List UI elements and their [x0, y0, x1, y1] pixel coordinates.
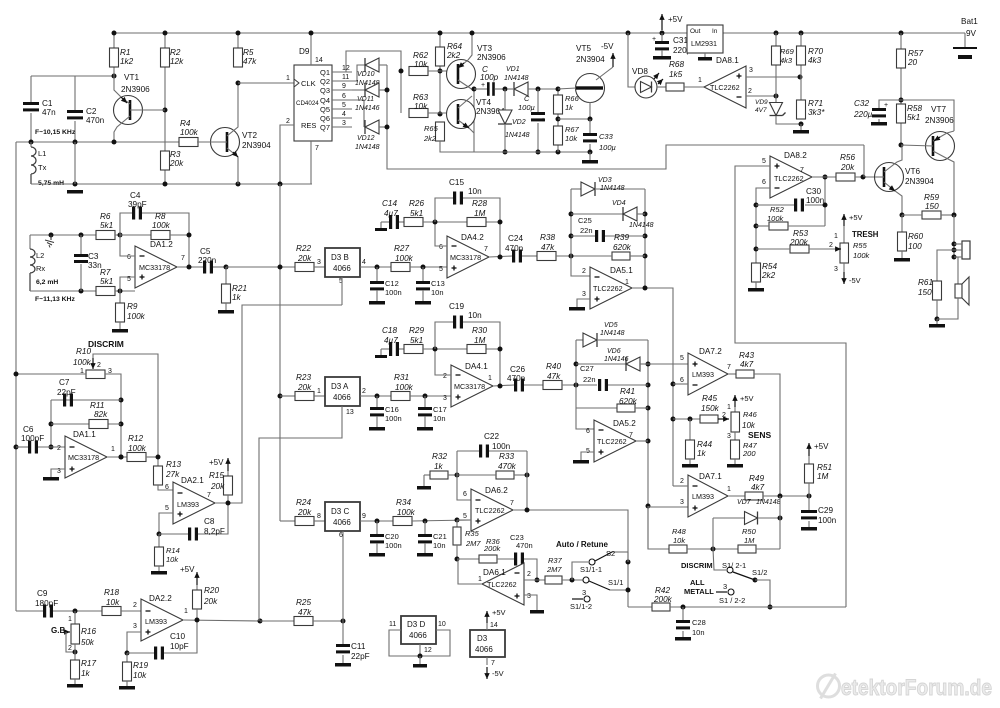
svg-text:DA6.2: DA6.2	[485, 486, 508, 495]
svg-text:R27: R27	[394, 244, 409, 253]
svg-text:C8: C8	[204, 517, 215, 526]
svg-text:4066: 4066	[333, 264, 351, 273]
svg-text:C33: C33	[599, 132, 614, 141]
svg-text:C2: C2	[86, 107, 97, 116]
svg-text:1M: 1M	[817, 472, 829, 481]
svg-text:3: 3	[133, 623, 137, 630]
svg-text:R34: R34	[396, 498, 411, 507]
svg-text:C9: C9	[37, 589, 48, 598]
svg-text:+5V: +5V	[740, 394, 754, 403]
svg-text:+5V: +5V	[814, 442, 829, 451]
svg-text:VD2: VD2	[512, 119, 526, 126]
svg-text:4: 4	[342, 111, 346, 118]
svg-text:DA1.2: DA1.2	[150, 240, 173, 249]
svg-text:VT4: VT4	[476, 98, 491, 107]
svg-text:1N4148: 1N4148	[756, 499, 781, 506]
svg-text:Q1: Q1	[320, 68, 330, 77]
svg-text:100k: 100k	[73, 358, 92, 367]
svg-text:4µ7: 4µ7	[384, 209, 398, 218]
svg-text:20k: 20k	[840, 163, 855, 172]
svg-text:DA2.1: DA2.1	[181, 476, 204, 485]
svg-text:R16: R16	[81, 627, 96, 636]
svg-text:+5V: +5V	[492, 608, 506, 617]
svg-text:LM393: LM393	[145, 617, 167, 626]
svg-text:VT5: VT5	[576, 44, 591, 53]
svg-text:Q4: Q4	[320, 96, 330, 105]
svg-text:Rx: Rx	[36, 264, 45, 273]
svg-text:5: 5	[463, 513, 467, 520]
svg-text:1: 1	[286, 75, 290, 82]
svg-text:R32: R32	[432, 452, 447, 461]
svg-text:5k1: 5k1	[410, 209, 423, 218]
svg-text:R37: R37	[548, 556, 563, 565]
svg-text:6: 6	[586, 428, 590, 435]
svg-text:C27: C27	[580, 364, 594, 373]
svg-text:3: 3	[834, 266, 838, 273]
svg-text:DA7.1: DA7.1	[699, 472, 722, 481]
svg-text:DA1.1: DA1.1	[73, 430, 96, 439]
svg-text:22n: 22n	[580, 226, 593, 235]
svg-text:10n: 10n	[433, 414, 446, 423]
svg-text:82k: 82k	[94, 410, 108, 419]
svg-text:R9: R9	[127, 302, 138, 311]
svg-text:C29: C29	[818, 506, 833, 515]
svg-text:9: 9	[342, 83, 346, 90]
svg-text:1N4146: 1N4146	[355, 105, 380, 112]
svg-text:D3: D3	[477, 634, 488, 643]
svg-text:100µ: 100µ	[518, 103, 535, 112]
svg-text:2: 2	[527, 571, 531, 578]
svg-text:C12: C12	[385, 279, 399, 288]
svg-text:10n: 10n	[692, 628, 705, 637]
svg-text:620k: 620k	[613, 243, 632, 252]
svg-text:200k: 200k	[653, 595, 673, 604]
svg-text:C32: C32	[854, 99, 869, 108]
svg-text:20k: 20k	[297, 383, 312, 392]
svg-text:VT2: VT2	[242, 131, 257, 140]
svg-text:R29: R29	[409, 326, 424, 335]
svg-text:50k: 50k	[81, 638, 95, 647]
svg-text:R57: R57	[908, 49, 923, 58]
svg-text:620k: 620k	[619, 397, 638, 406]
svg-text:1: 1	[727, 486, 731, 493]
svg-text:TRESH: TRESH	[852, 230, 879, 239]
svg-text:C30: C30	[806, 187, 821, 196]
svg-text:1: 1	[488, 375, 492, 382]
svg-text:Out: Out	[690, 28, 701, 35]
svg-text:1: 1	[68, 616, 72, 623]
svg-text:150: 150	[925, 202, 939, 211]
svg-text:6: 6	[127, 254, 131, 261]
svg-text:R42: R42	[655, 586, 670, 595]
svg-text:39pF: 39pF	[128, 200, 147, 209]
svg-text:DA6.1: DA6.1	[483, 568, 506, 577]
svg-text:100µ: 100µ	[599, 143, 616, 152]
svg-text:100k: 100k	[395, 254, 414, 263]
svg-text:METALL: METALL	[684, 587, 714, 596]
svg-text:3: 3	[342, 120, 346, 127]
svg-text:D3 B: D3 B	[331, 253, 349, 262]
svg-text:47k: 47k	[298, 608, 312, 617]
svg-text:7: 7	[181, 255, 185, 262]
svg-text:20k: 20k	[297, 254, 312, 263]
svg-text:R2: R2	[170, 48, 181, 57]
svg-text:3: 3	[723, 582, 727, 591]
svg-text:100k: 100k	[853, 251, 871, 260]
svg-text:C16: C16	[385, 405, 399, 414]
svg-text:6,2 mH: 6,2 mH	[36, 279, 58, 286]
svg-text:C15: C15	[449, 178, 464, 187]
svg-text:6: 6	[463, 491, 467, 498]
svg-text:220n: 220n	[198, 256, 217, 265]
svg-text:1N4148: 1N4148	[505, 132, 530, 139]
svg-text:R20: R20	[204, 586, 219, 595]
svg-text:VD10: VD10	[357, 71, 375, 78]
svg-text:VD4: VD4	[612, 200, 626, 207]
svg-text:-5V: -5V	[849, 276, 861, 285]
svg-text:DA8.2: DA8.2	[784, 151, 807, 160]
svg-text:S1/1-1: S1/1-1	[580, 565, 602, 574]
svg-text:11: 11	[342, 74, 349, 81]
svg-text:DA4.2: DA4.2	[461, 233, 484, 242]
svg-text:20k: 20k	[297, 508, 312, 517]
svg-text:6: 6	[762, 179, 766, 186]
svg-text:R48: R48	[672, 527, 687, 536]
svg-text:R68: R68	[669, 60, 684, 69]
svg-text:R21: R21	[232, 284, 247, 293]
svg-text:R23: R23	[296, 373, 311, 382]
svg-text:100n: 100n	[818, 516, 837, 525]
svg-text:1k: 1k	[434, 462, 444, 471]
svg-text:470n: 470n	[86, 116, 105, 125]
svg-text:10n: 10n	[431, 288, 444, 297]
svg-text:R65: R65	[424, 124, 439, 133]
svg-text:VD8: VD8	[632, 67, 648, 76]
svg-text:VD3: VD3	[598, 177, 612, 184]
svg-text:R24: R24	[296, 498, 311, 507]
svg-text:200k: 200k	[483, 544, 502, 553]
svg-text:R46: R46	[743, 410, 758, 419]
svg-text:S1/1: S1/1	[608, 578, 623, 587]
svg-text:C26: C26	[510, 365, 525, 374]
svg-text:22n: 22n	[583, 375, 596, 384]
svg-text:CD4024: CD4024	[296, 100, 319, 107]
svg-text:D9: D9	[299, 47, 310, 56]
svg-text:C28: C28	[692, 618, 706, 627]
svg-text:C3: C3	[88, 252, 99, 261]
svg-text:2: 2	[68, 645, 72, 652]
svg-text:1k: 1k	[697, 449, 707, 458]
svg-text:100k: 100k	[395, 383, 414, 392]
svg-text:Tx: Tx	[38, 163, 47, 172]
svg-text:22pF: 22pF	[57, 388, 76, 397]
svg-text:1: 1	[698, 77, 702, 84]
svg-text:VD7: VD7	[737, 499, 752, 506]
svg-text:C19: C19	[449, 302, 464, 311]
svg-text:ALL: ALL	[690, 578, 705, 587]
svg-text:470k: 470k	[498, 462, 517, 471]
svg-text:10k: 10k	[414, 60, 428, 69]
svg-text:C13: C13	[431, 279, 445, 288]
svg-text:+: +	[884, 102, 888, 109]
svg-text:100k: 100k	[767, 214, 785, 223]
svg-text:47k: 47k	[541, 243, 555, 252]
svg-text:D3 D: D3 D	[407, 620, 425, 629]
svg-text:4k3: 4k3	[780, 56, 793, 65]
svg-text:20k: 20k	[169, 159, 184, 168]
svg-text:DA5.1: DA5.1	[610, 266, 633, 275]
svg-text:In: In	[712, 28, 718, 35]
svg-text:22pF: 22pF	[351, 652, 370, 661]
svg-text:R38: R38	[540, 233, 555, 242]
svg-text:C10: C10	[170, 632, 185, 641]
svg-text:R17: R17	[81, 659, 96, 668]
svg-text:R45: R45	[702, 394, 717, 403]
svg-text:1: 1	[111, 446, 115, 453]
svg-text:+5V: +5V	[180, 565, 195, 574]
svg-text:R12: R12	[128, 434, 143, 443]
svg-text:C6: C6	[23, 425, 34, 434]
svg-text:R55: R55	[853, 241, 868, 250]
svg-text:6: 6	[342, 93, 346, 100]
svg-text:1N4148: 1N4148	[355, 144, 380, 151]
svg-text:470n: 470n	[516, 541, 533, 550]
svg-text:12k: 12k	[170, 57, 184, 66]
svg-text:R54: R54	[762, 262, 777, 271]
svg-text:C5: C5	[200, 247, 211, 256]
svg-text:TLC2262: TLC2262	[774, 174, 804, 183]
svg-text:200k: 200k	[789, 238, 809, 247]
svg-text:100pF: 100pF	[21, 434, 44, 443]
svg-text:R13: R13	[166, 460, 181, 469]
svg-text:R14: R14	[166, 546, 180, 555]
svg-text:7: 7	[484, 246, 488, 253]
svg-text:220µ: 220µ	[853, 110, 873, 119]
svg-text:C11: C11	[351, 642, 366, 651]
svg-text:+5V: +5V	[668, 15, 683, 24]
svg-text:VD1: VD1	[506, 66, 520, 73]
svg-text:C22: C22	[484, 432, 499, 441]
svg-text:10n: 10n	[433, 541, 446, 550]
svg-text:R53: R53	[793, 229, 808, 238]
svg-text:9: 9	[362, 513, 366, 520]
svg-text:D3 C: D3 C	[331, 507, 349, 516]
svg-text:12: 12	[424, 647, 432, 654]
svg-text:1N4148: 1N4148	[600, 185, 625, 192]
svg-text:20: 20	[907, 58, 918, 67]
svg-text:3: 3	[680, 499, 684, 506]
svg-text:14: 14	[490, 622, 498, 629]
svg-text:R8: R8	[155, 212, 166, 221]
svg-text:4µ7: 4µ7	[384, 336, 398, 345]
svg-text:+: +	[652, 36, 656, 43]
svg-text:1: 1	[478, 576, 482, 583]
svg-text:TLC2262: TLC2262	[487, 580, 517, 589]
svg-text:S1/2: S1/2	[752, 568, 767, 577]
svg-text:20k: 20k	[210, 482, 225, 491]
svg-text:VD6: VD6	[607, 348, 621, 355]
svg-text:C25: C25	[578, 216, 592, 225]
svg-text:10k: 10k	[414, 102, 428, 111]
svg-text:1M: 1M	[474, 336, 486, 345]
svg-text:3: 3	[317, 259, 321, 266]
svg-text:LM393: LM393	[177, 500, 199, 509]
svg-text:R11: R11	[90, 401, 104, 410]
svg-text:R44: R44	[697, 440, 712, 449]
svg-text:VT1: VT1	[124, 73, 139, 82]
svg-text:10k: 10k	[106, 598, 120, 607]
svg-text:150: 150	[918, 288, 932, 297]
svg-text:2N3904: 2N3904	[576, 55, 605, 64]
svg-text:C1: C1	[42, 99, 53, 108]
svg-text:1k: 1k	[565, 103, 574, 112]
svg-text:2: 2	[748, 88, 752, 95]
svg-text:R39: R39	[614, 233, 629, 242]
svg-text:7: 7	[491, 660, 495, 667]
svg-text:R61: R61	[918, 278, 933, 287]
svg-text:+5V: +5V	[209, 458, 224, 467]
svg-text:C18: C18	[382, 326, 397, 335]
svg-text:S1/1-2: S1/1-2	[570, 602, 592, 611]
svg-text:4V7: 4V7	[755, 107, 767, 114]
svg-text:1: 1	[184, 608, 188, 615]
svg-text:MC33178: MC33178	[450, 253, 481, 262]
svg-text:1: 1	[834, 233, 838, 240]
svg-text:2: 2	[97, 362, 101, 369]
svg-text:10: 10	[438, 621, 446, 628]
svg-text:VD5: VD5	[604, 322, 618, 329]
svg-text:4066: 4066	[409, 631, 427, 640]
svg-text:TLC2262: TLC2262	[710, 83, 740, 92]
svg-text:2N3904: 2N3904	[905, 177, 934, 186]
svg-text:7: 7	[510, 500, 514, 507]
svg-text:5k1: 5k1	[100, 221, 113, 230]
svg-text:3: 3	[443, 395, 447, 402]
svg-text:470n: 470n	[505, 244, 524, 253]
svg-text:150k: 150k	[701, 404, 720, 413]
svg-text:R63: R63	[413, 93, 428, 102]
svg-text:R59: R59	[924, 193, 939, 202]
svg-text:MC33178: MC33178	[139, 263, 170, 272]
svg-text:2N3906: 2N3906	[121, 85, 150, 94]
svg-text:C31: C31	[673, 36, 688, 45]
svg-text:7: 7	[727, 364, 731, 371]
svg-text:20k: 20k	[203, 597, 218, 606]
svg-text:2: 2	[133, 602, 137, 609]
svg-text:100n: 100n	[806, 196, 825, 205]
svg-text:R6: R6	[100, 212, 111, 221]
svg-text:C20: C20	[385, 532, 399, 541]
svg-text:R31: R31	[394, 373, 409, 382]
svg-text:2N3904: 2N3904	[242, 141, 271, 150]
svg-text:2: 2	[362, 388, 366, 395]
svg-text:5: 5	[439, 266, 443, 273]
svg-text:+5V: +5V	[849, 213, 863, 222]
svg-text:R56: R56	[840, 153, 855, 162]
svg-text:VD9: VD9	[755, 99, 768, 106]
svg-text:R7: R7	[100, 268, 111, 277]
svg-text:5: 5	[342, 102, 346, 109]
svg-text:4066: 4066	[333, 518, 351, 527]
svg-text:3: 3	[582, 291, 586, 298]
svg-text:7: 7	[800, 167, 804, 174]
svg-text:R22: R22	[296, 244, 311, 253]
svg-text:100k: 100k	[152, 221, 171, 230]
svg-text:200: 200	[742, 449, 756, 458]
svg-text:14: 14	[315, 57, 323, 64]
svg-text:R25: R25	[296, 598, 311, 607]
svg-text:C17: C17	[433, 405, 447, 414]
svg-text:2k2: 2k2	[446, 51, 461, 60]
svg-text:8: 8	[317, 513, 321, 520]
svg-text:4k3: 4k3	[808, 56, 822, 65]
svg-text:VT7: VT7	[931, 105, 946, 114]
svg-text:10n: 10n	[468, 187, 482, 196]
svg-text:LM393: LM393	[692, 492, 714, 501]
svg-text:R49: R49	[749, 474, 764, 483]
svg-text:VT3: VT3	[477, 44, 492, 53]
svg-text:11: 11	[389, 621, 396, 628]
svg-text:6: 6	[439, 244, 443, 251]
svg-text:R51: R51	[817, 463, 832, 472]
svg-text:6: 6	[339, 532, 343, 539]
svg-text:5k1: 5k1	[410, 336, 423, 345]
svg-text:5k1: 5k1	[100, 277, 113, 286]
svg-text:R30: R30	[472, 326, 487, 335]
svg-text:R64: R64	[447, 42, 462, 51]
svg-text:5: 5	[680, 355, 684, 362]
svg-text:R18: R18	[104, 588, 119, 597]
svg-text:R5: R5	[243, 48, 254, 57]
svg-text:R4: R4	[180, 119, 191, 128]
svg-text:1N4146: 1N4146	[604, 356, 629, 363]
svg-text:Bat1: Bat1	[961, 17, 978, 26]
svg-text:3k3*: 3k3*	[808, 108, 825, 117]
svg-text:+: +	[541, 117, 545, 124]
svg-text:100p: 100p	[480, 73, 499, 82]
svg-text:8,2pF: 8,2pF	[204, 527, 225, 536]
svg-text:1k5: 1k5	[669, 70, 683, 79]
svg-text:100n: 100n	[492, 442, 511, 451]
svg-text:+: +	[481, 82, 485, 89]
svg-text:2: 2	[57, 445, 61, 452]
svg-text:R40: R40	[546, 362, 561, 371]
svg-text:7: 7	[315, 145, 319, 152]
svg-text:R15: R15	[209, 471, 224, 480]
svg-text:S2: S2	[606, 549, 615, 558]
svg-text:100k: 100k	[128, 444, 147, 453]
svg-text:470n: 470n	[507, 374, 526, 383]
svg-text:S1/ 2-1: S1/ 2-1	[722, 561, 746, 570]
svg-text:TLC2262: TLC2262	[597, 437, 627, 446]
svg-text:2N3906: 2N3906	[477, 53, 506, 62]
svg-text:2: 2	[443, 373, 447, 380]
svg-text:DISCRIM: DISCRIM	[681, 561, 713, 570]
svg-text:1N4148: 1N4148	[504, 75, 529, 82]
svg-text:C14: C14	[382, 199, 397, 208]
svg-text:1k: 1k	[81, 669, 91, 678]
svg-text:1k: 1k	[232, 293, 242, 302]
svg-text:10k: 10k	[742, 421, 756, 430]
svg-text:100n: 100n	[385, 541, 402, 550]
svg-text:3: 3	[749, 67, 753, 74]
svg-text:3: 3	[527, 593, 531, 600]
svg-text:DA7.2: DA7.2	[699, 347, 722, 356]
svg-text:10n: 10n	[468, 311, 482, 320]
svg-text:-5V: -5V	[601, 42, 614, 51]
svg-text:2k2: 2k2	[761, 271, 776, 280]
svg-text:R1: R1	[120, 48, 130, 57]
